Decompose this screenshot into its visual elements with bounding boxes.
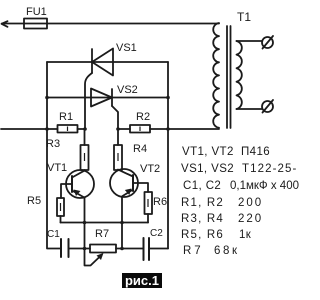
svg-text:220: 220: [238, 213, 263, 225]
svg-text:R7: R7: [183, 245, 204, 257]
svg-text:П416: П416: [241, 146, 270, 158]
svg-text:VT2: VT2: [140, 163, 160, 175]
svg-text:Т122-25-: Т122-25-: [242, 163, 297, 175]
svg-text:200: 200: [238, 197, 263, 209]
svg-text:R5: R5: [27, 195, 41, 207]
svg-text:VT1, VT2: VT1, VT2: [182, 146, 234, 158]
svg-text:рис.1: рис.1: [125, 273, 159, 288]
svg-text:VT1: VT1: [47, 162, 67, 174]
svg-text:R6: R6: [153, 196, 167, 208]
svg-text:VS1: VS1: [116, 42, 137, 54]
svg-text:VS2: VS2: [117, 84, 138, 96]
svg-text:C1, C2: C1, C2: [183, 180, 221, 192]
svg-text:R1: R1: [59, 111, 73, 123]
svg-text:R7: R7: [95, 228, 109, 240]
svg-text:C1: C1: [47, 229, 60, 240]
svg-text:0,1мкФ х 400: 0,1мкФ х 400: [230, 180, 299, 192]
svg-text:FU1: FU1: [26, 6, 47, 18]
svg-text:VS1, VS2: VS1, VS2: [181, 163, 234, 175]
svg-text:R3, R4: R3, R4: [181, 213, 224, 225]
svg-text:T1: T1: [237, 10, 251, 24]
svg-text:R3: R3: [46, 138, 60, 150]
svg-text:R4: R4: [133, 143, 147, 155]
svg-text:1к: 1к: [239, 229, 252, 241]
svg-text:R2: R2: [136, 111, 150, 123]
svg-text:R1, R2: R1, R2: [181, 197, 224, 209]
svg-text:68к: 68к: [214, 245, 240, 257]
svg-text:R5, R6: R5, R6: [181, 229, 224, 241]
svg-text:C2: C2: [150, 228, 163, 239]
